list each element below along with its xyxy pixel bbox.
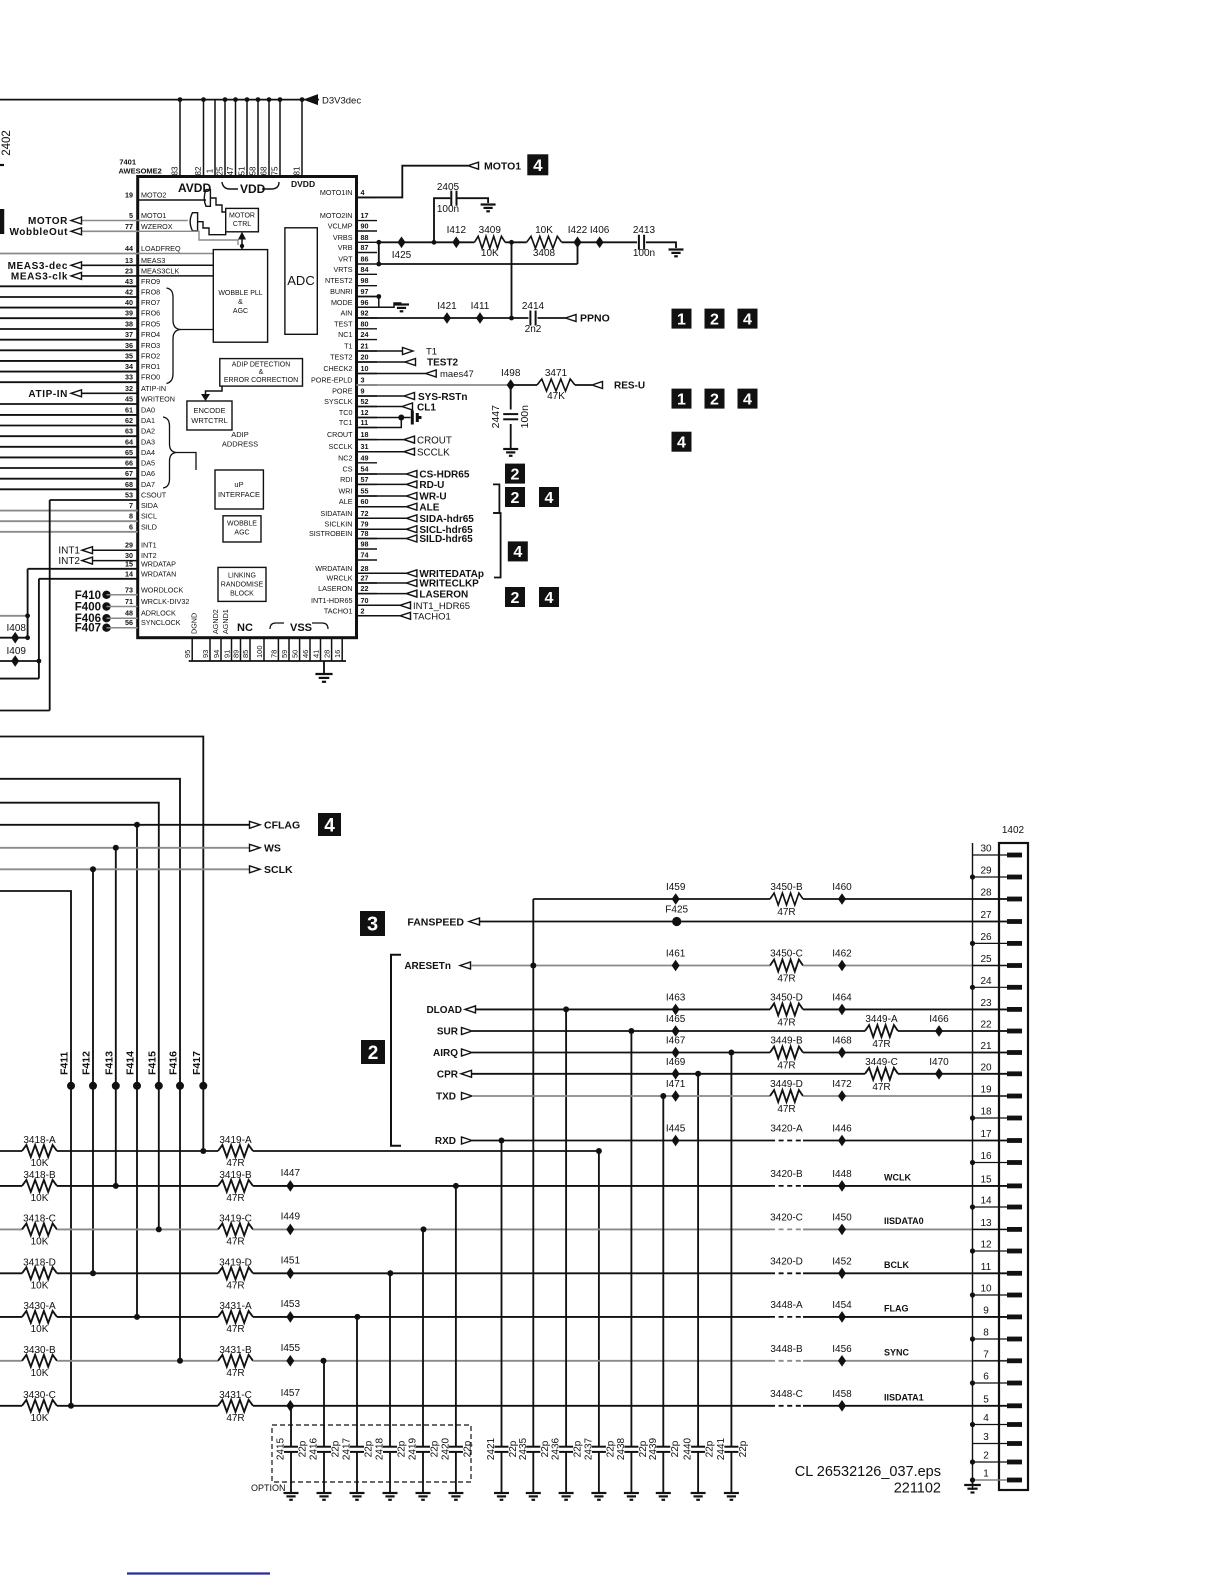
resistor 3420-C (not fitted) — [770, 1228, 803, 1230]
svg-text:2419: 2419 — [408, 1437, 419, 1460]
capacitor 2417 — [350, 1447, 364, 1452]
svg-text:78: 78 — [361, 529, 369, 538]
svg-text:56: 56 — [125, 618, 133, 627]
svg-text:1: 1 — [677, 391, 686, 408]
svg-text:10K: 10K — [31, 1368, 49, 1379]
svg-text:I465: I465 — [666, 1014, 686, 1025]
svg-text:10K: 10K — [31, 1413, 49, 1424]
capacitor 2447 — [503, 414, 518, 419]
svg-text:RES-U: RES-U — [614, 381, 645, 392]
junction F417 column — [200, 1148, 206, 1154]
wire gray row 615 — [0, 615, 28, 617]
svg-text:7: 7 — [129, 501, 133, 510]
svg-text:61: 61 — [125, 405, 133, 414]
svg-text:22p: 22p — [670, 1440, 681, 1457]
svg-text:3420-D: 3420-D — [770, 1256, 803, 1267]
svg-text:DA2: DA2 — [141, 427, 155, 436]
svg-text:OPTION: OPTION — [251, 1483, 286, 1493]
svg-text:88: 88 — [361, 233, 369, 242]
wire I422 down to VRT line — [577, 242, 579, 264]
svg-text:2416: 2416 — [309, 1437, 320, 1460]
svg-text:I460: I460 — [832, 882, 852, 893]
block WOBBLE PLL & AGC — [213, 250, 267, 343]
resistor 3420-D (not fitted) — [770, 1272, 803, 1274]
IC supply label VDD brace — [222, 182, 279, 189]
svg-text:2n2: 2n2 — [525, 324, 542, 335]
net CPR arrow — [461, 1070, 472, 1077]
wire WRDATAN to vertical — [39, 578, 138, 580]
net CS-HDR65 wire+arrow — [357, 471, 417, 478]
net SCLK arrow — [250, 866, 261, 873]
testpoint F400 pad — [102, 602, 110, 610]
svg-text:WOBBLE: WOBBLE — [227, 521, 257, 528]
connector pin 16 column crossing — [973, 1162, 1009, 1164]
svg-text:I470: I470 — [929, 1057, 949, 1068]
net SYS-RSTn wire+arrow — [357, 393, 415, 400]
svg-text:25: 25 — [980, 954, 992, 965]
connector pin 21 pad — [1007, 1050, 1022, 1055]
svg-text:3419-B: 3419-B — [219, 1170, 252, 1181]
junction 2405 tap — [432, 240, 437, 245]
junction F413 column — [113, 1183, 119, 1189]
wire FRO7 from left edge — [0, 307, 138, 309]
resistor 3450-C — [770, 960, 803, 972]
ground 2447 — [503, 449, 518, 456]
net TACHO1 wire+arrow — [357, 612, 411, 619]
svg-text:CTRL: CTRL — [233, 221, 251, 228]
svg-text:INT1: INT1 — [58, 546, 80, 557]
svg-text:2438: 2438 — [616, 1437, 627, 1460]
net WobbleOut wire+arrow — [71, 228, 138, 235]
wire row 3418-A mid — [57, 1150, 218, 1152]
svg-text:ATIP-IN: ATIP-IN — [28, 389, 68, 400]
svg-text:2447: 2447 — [490, 405, 502, 429]
wire AIN junction vertical — [511, 242, 513, 318]
svg-text:10K: 10K — [481, 248, 499, 259]
svg-text:MOTO1: MOTO1 — [484, 161, 521, 173]
ground IC VSS — [315, 674, 332, 682]
wire 2413 to ground — [646, 242, 676, 248]
svg-text:39: 39 — [125, 309, 133, 318]
net DLOAD arrow — [465, 1006, 476, 1013]
svg-text:MEAS3-dec: MEAS3-dec — [8, 261, 68, 272]
ground 2415 — [284, 1493, 299, 1500]
page ref box 2 row1 — [705, 309, 725, 329]
VDD pin 58 wire — [256, 97, 261, 176]
svg-text:4: 4 — [743, 391, 752, 408]
wire DLOAD row right — [803, 1008, 1007, 1010]
wire row 3419-B right — [253, 1185, 770, 1187]
wire DA2 from left edge — [0, 435, 138, 437]
IC U7401 body outline — [138, 177, 357, 638]
IC right pin 80 stub — [357, 328, 378, 330]
svg-text:CHECK2: CHECK2 — [323, 364, 352, 373]
svg-text:2405: 2405 — [437, 182, 460, 193]
svg-text:WRCLK: WRCLK — [327, 574, 353, 583]
resistor 3408 — [527, 236, 562, 248]
junction F415 column — [156, 1226, 162, 1232]
IC right pin 27 stub — [357, 582, 378, 584]
svg-text:LINKING: LINKING — [228, 573, 256, 580]
testpoint I450 — [838, 1224, 846, 1236]
svg-text:9: 9 — [983, 1305, 989, 1316]
resistor 3420-B (not fitted) — [770, 1185, 803, 1187]
svg-text:83: 83 — [171, 166, 180, 175]
svg-text:22p: 22p — [573, 1440, 584, 1457]
svg-text:22: 22 — [980, 1020, 992, 1031]
mux symbol MOTO1 — [190, 213, 197, 231]
wire MOTO2 to mux — [138, 199, 206, 201]
svg-text:LASERON: LASERON — [419, 589, 468, 600]
capacitor 2440 — [691, 1447, 705, 1452]
svg-text:221102: 221102 — [894, 1481, 941, 1497]
svg-text:F416: F416 — [168, 1051, 180, 1075]
IC right pin 24 stub — [357, 339, 378, 341]
wire TC0 row — [357, 417, 411, 419]
svg-text:I445: I445 — [666, 1124, 686, 1135]
testpoint I451 — [286, 1268, 294, 1280]
block ADC — [285, 228, 317, 334]
svg-text:3448-C: 3448-C — [770, 1389, 803, 1400]
wire SCLK row — [0, 868, 249, 870]
resistor 3449-B — [770, 1047, 803, 1059]
svg-text:64: 64 — [125, 437, 133, 446]
svg-text:ERROR CORRECTION: ERROR CORRECTION — [224, 377, 298, 384]
wire RXD row left — [472, 1140, 770, 1142]
VDD pin 82 wire — [201, 97, 206, 176]
page ref box 3 (FANSPEED) — [360, 911, 385, 936]
svg-text:47R: 47R — [872, 1082, 890, 1093]
svg-text:VDD: VDD — [240, 182, 266, 196]
junction AIN tap — [509, 240, 514, 245]
resistor 3471 — [537, 379, 575, 391]
connector pin 19 column crossing — [973, 1095, 1009, 1097]
connector pin1 ground stub — [973, 1479, 1008, 1481]
brace DA0-DA7 — [163, 417, 177, 488]
wire row pin9 to connector — [803, 1316, 1007, 1318]
svg-text:23: 23 — [125, 266, 133, 275]
capacitor 2419 — [416, 1447, 430, 1452]
testpoint I462 — [838, 960, 846, 972]
wire WS row — [0, 847, 249, 849]
wire TXD row left — [472, 1095, 770, 1097]
wire SUR row left — [472, 1030, 865, 1032]
svg-text:I452: I452 — [832, 1256, 852, 1267]
svg-text:38: 38 — [125, 320, 133, 329]
svg-text:FRO5: FRO5 — [141, 320, 160, 329]
wire MODE stub — [357, 306, 379, 308]
net WRITEDATAp wire+arrow — [357, 570, 417, 577]
svg-text:16: 16 — [333, 650, 342, 658]
capacitor 2405 — [451, 191, 456, 206]
svg-text:I462: I462 — [832, 949, 852, 960]
svg-text:90: 90 — [361, 222, 369, 231]
IC right pin 21 stub — [357, 350, 378, 352]
svg-text:14: 14 — [125, 569, 133, 578]
block ENCODE WRTCTRL — [187, 401, 232, 430]
connector pin 20 column crossing — [973, 1073, 1009, 1075]
wire 2416 from row — [323, 1361, 325, 1446]
svg-text:RXD: RXD — [435, 1136, 456, 1147]
IC right pin 18 stub — [357, 439, 378, 441]
svg-text:3: 3 — [367, 914, 378, 936]
svg-text:2421: 2421 — [486, 1437, 497, 1460]
testpoint I447 — [286, 1180, 294, 1192]
page ref box 2 (RD-U group) — [505, 487, 525, 507]
svg-text:3431-A: 3431-A — [219, 1301, 252, 1312]
resistor 3418-A — [22, 1145, 57, 1157]
ground 2439 — [656, 1493, 671, 1500]
wire row 3419-D right — [253, 1272, 770, 1274]
svg-text:SILD-hdr65: SILD-hdr65 — [419, 534, 473, 545]
connector 1402 body — [999, 843, 1028, 1490]
wire SUR row right — [898, 1030, 1007, 1032]
resistor 3449-A — [865, 1025, 898, 1037]
svg-text:35: 35 — [125, 351, 133, 360]
svg-text:15: 15 — [980, 1174, 992, 1185]
junction 2415 at I457 — [287, 1403, 293, 1409]
svg-text:7: 7 — [983, 1349, 989, 1360]
svg-text:100n: 100n — [519, 405, 531, 429]
wire 3408 to cap 2413 — [562, 241, 637, 243]
wire WRDATAP to vertical — [28, 568, 138, 570]
svg-text:65: 65 — [125, 448, 133, 457]
VDD pin 83 wire — [178, 97, 183, 176]
svg-text:DGND: DGND — [190, 613, 199, 634]
svg-text:18: 18 — [361, 430, 369, 439]
connector ground pin 8 junction — [970, 1336, 975, 1341]
testpoint I457 — [286, 1400, 294, 1412]
svg-text:I411: I411 — [471, 301, 490, 312]
connector pin-number column vertical — [972, 843, 974, 1490]
svg-text:10K: 10K — [31, 1158, 49, 1169]
wire F410 to IC — [107, 594, 138, 596]
svg-text:26: 26 — [980, 932, 992, 943]
svg-text:29: 29 — [125, 541, 133, 550]
svg-text:AGND1: AGND1 — [221, 609, 230, 634]
mux MOTO2 connection — [210, 198, 225, 212]
ground 2435 — [526, 1493, 541, 1500]
svg-text:86: 86 — [361, 255, 369, 264]
connector pin 7 column crossing — [973, 1360, 1009, 1362]
IC bottom pin 46 stub — [309, 638, 311, 661]
svg-text:2435: 2435 — [518, 1437, 529, 1460]
svg-text:62: 62 — [125, 416, 133, 425]
capacitor 2421 — [495, 1447, 509, 1452]
IC right pin 90 stub — [357, 230, 378, 232]
wire CPR row right — [898, 1073, 1007, 1075]
wire exit y710 — [0, 710, 50, 712]
svg-text:29: 29 — [980, 866, 992, 877]
svg-text:AIN: AIN — [341, 309, 353, 318]
net TXD arrow — [462, 1093, 473, 1100]
junction connector ground — [970, 1477, 975, 1482]
testpoint F425 pad — [672, 917, 681, 926]
svg-text:3418-A: 3418-A — [23, 1135, 56, 1146]
svg-text:CS: CS — [343, 465, 353, 474]
svg-text:AGC: AGC — [233, 308, 248, 315]
connector ground pin 4 junction — [970, 1422, 975, 1427]
wire SILD from left edge — [0, 531, 138, 533]
IC bottom pin 85 stub — [249, 638, 251, 661]
svg-text:98: 98 — [361, 540, 369, 549]
svg-text:47K: 47K — [547, 391, 565, 402]
svg-text:28: 28 — [980, 888, 992, 899]
net ALE wire+arrow — [357, 503, 417, 510]
wire row pin7 to connector — [803, 1360, 1007, 1362]
wire AIRQ row right — [803, 1052, 1007, 1054]
svg-text:2: 2 — [511, 590, 520, 607]
svg-text:3450-C: 3450-C — [770, 949, 803, 960]
svg-text:3419-C: 3419-C — [219, 1213, 252, 1224]
svg-text:47R: 47R — [226, 1236, 244, 1247]
svg-text:3449-B: 3449-B — [770, 1036, 803, 1047]
svg-text:&: & — [238, 299, 243, 306]
svg-text:47R: 47R — [777, 1104, 795, 1115]
junction F412 column — [90, 1270, 96, 1276]
svg-text:I467: I467 — [666, 1036, 686, 1047]
svg-text:23: 23 — [980, 998, 992, 1009]
net INT1_HDR65 wire+arrow — [357, 602, 411, 609]
svg-text:47R: 47R — [226, 1280, 244, 1291]
connector pin 24 column crossing — [973, 986, 1009, 988]
wire MOTO1IN to MOTO1 label — [357, 166, 469, 198]
svg-text:31: 31 — [361, 442, 369, 451]
resistor 3431-C — [218, 1400, 253, 1412]
resistor 3431-A — [218, 1311, 253, 1323]
svg-text:2439: 2439 — [648, 1437, 659, 1460]
junction TC0 — [398, 415, 404, 421]
arrow into MOTOR CTRL — [238, 232, 246, 250]
svg-text:DA3: DA3 — [141, 437, 155, 446]
svg-text:72: 72 — [361, 509, 369, 518]
svg-text:32: 32 — [125, 384, 133, 393]
wire row 3430-A mid — [57, 1316, 218, 1318]
vertical wire x27 — [27, 569, 29, 638]
svg-text:53: 53 — [125, 491, 133, 500]
svg-text:13: 13 — [125, 256, 133, 265]
svg-text:3449-C: 3449-C — [865, 1057, 898, 1068]
wire row 3430-B mid — [57, 1360, 218, 1362]
connector pin 28 pad — [1007, 897, 1022, 902]
svg-text:43: 43 — [125, 277, 133, 286]
svg-text:SICLKIN: SICLKIN — [325, 520, 353, 529]
wire MODE to ground — [379, 303, 402, 307]
vertical TXD to cap 2439 — [662, 1096, 664, 1446]
junction SCLK F412 — [90, 866, 96, 872]
IC right pin 54 stub — [357, 473, 378, 475]
svg-text:PORE: PORE — [332, 387, 353, 396]
testpoint I466 — [935, 1025, 943, 1037]
svg-text:70: 70 — [361, 596, 369, 605]
connector ground pin 26 junction — [970, 941, 975, 946]
svg-text:78: 78 — [269, 650, 278, 658]
svg-text:I425: I425 — [392, 250, 412, 261]
wire 2436 to ground — [565, 1452, 567, 1492]
VDD pin 81 wire — [300, 97, 305, 176]
svg-text:DA0: DA0 — [141, 405, 155, 414]
svg-text:F410: F410 — [75, 590, 101, 602]
junction row A to cap 2437 — [596, 1148, 602, 1154]
resistor 3450-B — [770, 893, 803, 905]
resistor 3418-B — [22, 1180, 57, 1192]
svg-text:95: 95 — [183, 650, 192, 658]
svg-text:2440: 2440 — [683, 1437, 694, 1460]
net SUR arrow — [462, 1028, 473, 1035]
junction SUR cap column — [628, 1028, 634, 1034]
wire MOTO1 to mux — [138, 220, 188, 222]
connector ground pin 2 junction — [970, 1459, 975, 1464]
wire row 3430-A left lead — [0, 1316, 22, 1318]
testpoint I471 — [672, 1090, 680, 1102]
wire FRO3 from left edge — [0, 349, 138, 351]
IC right pin 31 stub — [357, 451, 378, 453]
svg-text:VCLMP: VCLMP — [328, 222, 353, 231]
wire CSOUT to left vertical — [50, 499, 138, 501]
wire 2419 from row — [422, 1229, 424, 1446]
wire F400 to IC — [107, 606, 138, 608]
wire 2420 from row — [455, 1186, 457, 1446]
svg-text:SCCLK: SCCLK — [417, 448, 450, 459]
svg-text:I451: I451 — [281, 1255, 301, 1266]
svg-text:F415: F415 — [146, 1051, 158, 1075]
svg-text:VRTS: VRTS — [333, 265, 352, 274]
junction AIN vertical — [509, 316, 514, 321]
wire 3471 to RES-U — [575, 384, 592, 386]
connector ground pin 18 junction — [970, 1115, 975, 1120]
svg-text:2436: 2436 — [551, 1437, 562, 1460]
svg-text:I459: I459 — [666, 882, 686, 893]
svg-text:SYSCLK: SYSCLK — [324, 397, 353, 406]
IC right pin 4 stub — [357, 196, 378, 198]
power rail D3V3dec wire — [0, 99, 319, 101]
wire FRO2 from left edge — [0, 360, 138, 362]
svg-text:2: 2 — [368, 1043, 379, 1064]
svg-text:TEST: TEST — [334, 319, 353, 328]
svg-text:PPNO: PPNO — [580, 313, 610, 325]
svg-text:FRO0: FRO0 — [141, 373, 160, 382]
page ref box 4 row2 — [738, 389, 758, 409]
connector pin 30 pad — [1007, 853, 1022, 858]
resistor 3450-D — [770, 1003, 803, 1015]
svg-text:100n: 100n — [633, 248, 655, 259]
svg-text:20: 20 — [980, 1062, 992, 1073]
svg-text:3408: 3408 — [533, 248, 556, 259]
resistor 3409 — [474, 236, 505, 248]
svg-text:1402: 1402 — [1002, 825, 1025, 836]
brace FRO9-FRO0 — [167, 288, 181, 384]
svg-text:3419-D: 3419-D — [219, 1257, 252, 1268]
svg-text:71: 71 — [125, 597, 133, 606]
svg-text:8: 8 — [129, 512, 133, 521]
svg-text:MEAS3CLK: MEAS3CLK — [141, 266, 180, 275]
svg-text:2402: 2402 — [1, 130, 13, 156]
resistor 3449-D — [770, 1090, 803, 1102]
svg-text:F407: F407 — [75, 623, 101, 635]
vertical wire F413 — [115, 848, 117, 1186]
svg-text:6: 6 — [983, 1372, 989, 1383]
svg-text:MOTOR: MOTOR — [229, 213, 255, 220]
svg-text:VRB: VRB — [338, 243, 353, 252]
svg-text:SYS-RSTn: SYS-RSTn — [418, 392, 467, 403]
connector pin 8 column crossing — [973, 1338, 1009, 1340]
svg-text:F417: F417 — [191, 1051, 203, 1075]
wire row 3418-C mid — [57, 1228, 218, 1230]
svg-text:22p: 22p — [462, 1440, 473, 1457]
svg-text:I461: I461 — [666, 949, 686, 960]
vertical CPR to cap 2440 — [697, 1074, 699, 1446]
svg-text:SIDATAIN: SIDATAIN — [320, 509, 352, 518]
